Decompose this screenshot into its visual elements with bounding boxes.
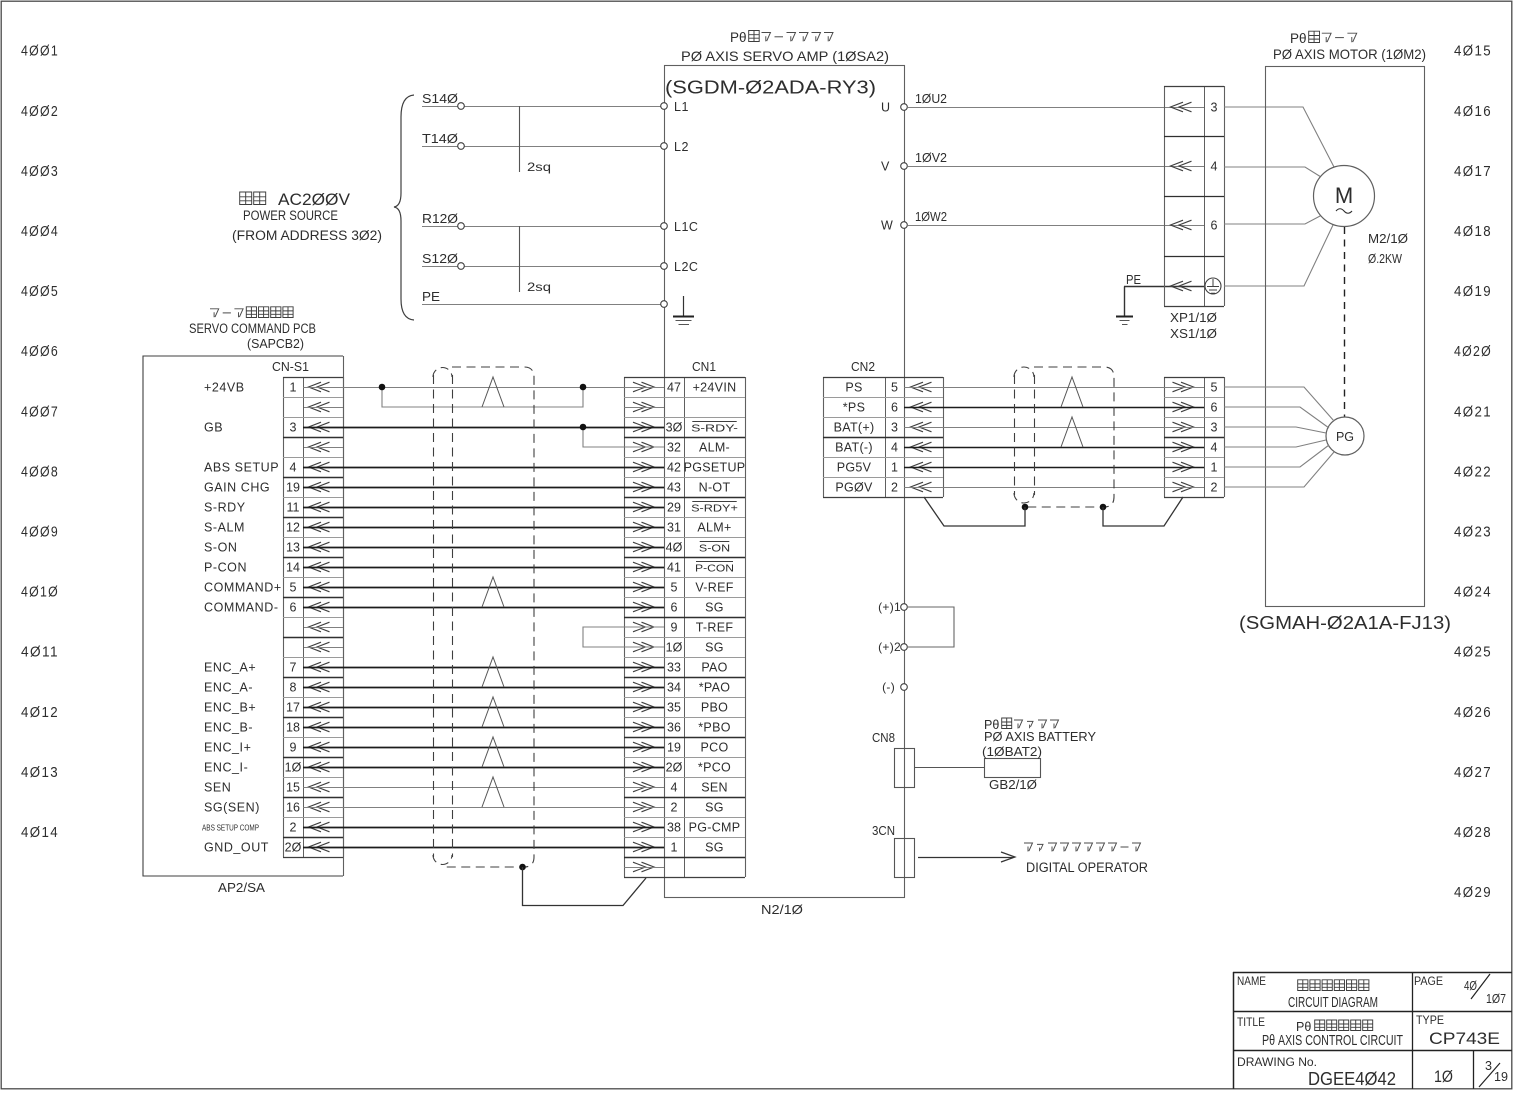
svg-text:29: 29 [667, 500, 681, 514]
wire W connector pin6 to motor [1224, 215, 1322, 224]
wire U connector pin3 to motor [1224, 107, 1334, 167]
wire GND_OUT CN-S1 to CN1 [303, 847, 664, 849]
svg-text:9: 9 [671, 620, 678, 634]
svg-text:42: 42 [667, 460, 681, 474]
svg-text:PAO: PAO [701, 660, 727, 674]
svg-text:2Ø: 2Ø [666, 760, 683, 774]
svg-text:*PCO: *PCO [698, 760, 731, 774]
svg-text:AC2ØØV: AC2ØØV [278, 191, 350, 209]
wire branch GB to CN1 pin32 ALM- [583, 427, 664, 447]
svg-text:2sq: 2sq [527, 160, 551, 174]
svg-text:U: U [881, 101, 890, 115]
encoder shield dashed outline [1025, 367, 1114, 507]
svg-text:TYPE: TYPE [1416, 1015, 1444, 1027]
connector CN2 strip frame [823, 377, 825, 497]
svg-text:L1C: L1C [674, 220, 698, 234]
svg-text:6: 6 [290, 600, 297, 614]
svg-text:11: 11 [287, 500, 300, 514]
ground symbol motor PE [1116, 316, 1133, 318]
svg-text:4Ø11: 4Ø11 [21, 645, 59, 661]
svg-text:SG: SG [705, 800, 724, 814]
svg-text:Pθ: Pθ [1290, 31, 1307, 46]
svg-text:5: 5 [1211, 380, 1218, 394]
svg-text:1: 1 [891, 460, 898, 474]
svg-text:CP743E: CP743E [1429, 1029, 1500, 1048]
wire encoder connector row y447 to PG [1224, 440, 1326, 447]
shield dots encoder [1022, 504, 1029, 511]
connector CN-S1 row pin shield [309, 442, 330, 452]
svg-text:P-CON: P-CON [695, 564, 734, 575]
svg-text:NAME: NAME [1237, 976, 1266, 988]
svg-text:DGEE4Ø42: DGEE4Ø42 [1308, 1069, 1396, 1089]
svg-text:3: 3 [1211, 420, 1218, 434]
shaft coupling dashed M to PG [1344, 227, 1346, 417]
svg-text:4ØØ7: 4ØØ7 [21, 404, 59, 420]
svg-text:(SGMAH-Ø2A1A-FJ13): (SGMAH-Ø2A1A-FJ13) [1239, 613, 1451, 633]
wire ABS SETUP CN-S1 to CN1 [303, 467, 664, 469]
svg-text:PØ AXIS MOTOR (1ØM2): PØ AXIS MOTOR (1ØM2) [1273, 46, 1426, 62]
svg-text:SERVO COMMAND PCB: SERVO COMMAND PCB [189, 321, 316, 336]
wire shield drain CN2 side [924, 497, 1025, 526]
svg-text:4Ø21: 4Ø21 [1454, 404, 1492, 420]
label power source AC200V (Japanese dengen) [240, 192, 252, 205]
svg-text:4Ø16: 4Ø16 [1454, 104, 1492, 120]
svg-text:12: 12 [286, 520, 300, 534]
svg-text:(+)2: (+)2 [878, 640, 901, 654]
svg-text:6: 6 [891, 400, 898, 414]
svg-text:TITLE: TITLE [1237, 1017, 1265, 1029]
svg-text:4Ø1Ø: 4Ø1Ø [21, 585, 59, 601]
svg-text:2: 2 [891, 480, 898, 494]
svg-text:17: 17 [286, 700, 300, 714]
svg-text:ALM+: ALM+ [697, 520, 731, 534]
wire ABS SETUP COMP CN-S1 to CN1 [303, 827, 664, 829]
svg-text:POWER SOURCE: POWER SOURCE [243, 208, 338, 223]
brace for power source group [394, 95, 414, 320]
svg-text:ENC_I-: ENC_I- [204, 760, 248, 774]
svg-text:N-OT: N-OT [699, 480, 731, 494]
wire PE connector to motor [1224, 225, 1333, 286]
connector CN1 row pin shield [633, 862, 654, 872]
wire shield drain to CN1 shell [523, 867, 647, 906]
svg-text:S14Ø: S14Ø [422, 92, 458, 106]
wire stub CN1 bottom shield row [624, 867, 664, 869]
wire stub CN1 shield row2 [624, 407, 664, 409]
svg-text:(+)1: (+)1 [878, 600, 901, 614]
svg-text:18: 18 [286, 720, 300, 734]
svg-text:PØ AXIS BATTERY: PØ AXIS BATTERY [984, 729, 1096, 744]
cable shield dashed hairpin left [433, 368, 452, 378]
connector CN-S1 strip frame [283, 377, 285, 857]
twisted pair symbols command cable [482, 577, 504, 607]
svg-text:4Ø12: 4Ø12 [21, 705, 59, 721]
svg-text:2: 2 [1211, 480, 1218, 494]
svg-text:CN2: CN2 [851, 359, 875, 374]
svg-text:SG: SG [705, 640, 724, 654]
wire V connector pin4 to motor [1224, 167, 1321, 177]
wire stub CN-S1 row14 [304, 647, 343, 649]
svg-text:1: 1 [671, 840, 678, 854]
svg-text:4ØØ8: 4ØØ8 [21, 464, 59, 480]
svg-text:PAGE: PAGE [1414, 976, 1443, 988]
svg-text:47: 47 [667, 380, 681, 394]
terminal circle on amp edge [661, 223, 668, 230]
wire +24VB return loop lower conductor [382, 387, 583, 407]
svg-text:+24VB: +24VB [204, 380, 245, 394]
wire S-ALM CN-S1 to CN1 [303, 527, 664, 529]
svg-text:19: 19 [1494, 1069, 1508, 1084]
wire W phase output 1ØW2 to motor connector [908, 225, 1204, 227]
svg-text:4: 4 [671, 780, 678, 794]
svg-text:S-RDY: S-RDY [204, 500, 246, 514]
svg-text:14: 14 [286, 560, 300, 574]
svg-text:4Ø2Ø: 4Ø2Ø [1454, 344, 1492, 360]
svg-text:PGSETUP: PGSETUP [684, 460, 746, 474]
terminal circle S14Ø [458, 103, 465, 110]
wire ENC_B- CN-S1 to CN1 [303, 727, 664, 729]
svg-text:GAIN CHG: GAIN CHG [204, 480, 270, 494]
svg-text:ABS SETUP COMP: ABS SETUP COMP [202, 823, 259, 833]
wire SEN CN-S1 to CN1 [303, 787, 664, 789]
wire GAIN CHG CN-S1 to CN1 [303, 487, 664, 489]
svg-text:4Ø: 4Ø [1464, 978, 1477, 993]
svg-text:*PS: *PS [843, 400, 865, 414]
svg-text:7: 7 [290, 660, 297, 674]
wire encoder connector row y407 to PG [1224, 407, 1329, 428]
wire GB pin3 to CN1 pin30 [303, 427, 664, 429]
svg-text:2: 2 [290, 820, 297, 834]
svg-text:GB2/1Ø: GB2/1Ø [989, 777, 1037, 792]
wire ENC_B+ CN-S1 to CN1 [303, 707, 664, 709]
motor P0 axis motor 10M2 box [1266, 67, 1425, 607]
svg-text:5: 5 [290, 580, 297, 594]
cable shield dashed outline [443, 367, 534, 867]
svg-text:15: 15 [286, 780, 300, 794]
svg-text:Ø.2KW: Ø.2KW [1368, 252, 1402, 266]
connector CN-S1 row pin shield [309, 622, 330, 632]
wire P-CON CN-S1 to CN1 [303, 567, 664, 569]
svg-text:ALM-: ALM- [699, 440, 730, 454]
svg-text:4Ø24: 4Ø24 [1454, 585, 1492, 601]
svg-text:35: 35 [667, 700, 681, 714]
svg-text:38: 38 [667, 820, 681, 834]
svg-text:AP2/SA: AP2/SA [218, 880, 265, 895]
wire S12Ø power input to servo amp [422, 266, 664, 268]
svg-text:3: 3 [290, 420, 297, 434]
svg-text:DIGITAL OPERATOR: DIGITAL OPERATOR [1026, 860, 1148, 875]
svg-text:1ØW2: 1ØW2 [915, 210, 947, 224]
svg-text:43: 43 [667, 480, 681, 494]
twisted pair symbol PS pair [1061, 377, 1083, 407]
svg-text:2Ø: 2Ø [285, 840, 302, 854]
svg-text:3: 3 [1211, 100, 1218, 114]
svg-text:CIRCUIT DIAGRAM: CIRCUIT DIAGRAM [1288, 995, 1378, 1011]
svg-text:4ØØ2: 4ØØ2 [21, 104, 59, 120]
connector CN-S1 row pin shield [309, 642, 330, 652]
svg-text:34: 34 [667, 680, 681, 694]
terminal circle on amp edge [661, 263, 668, 270]
svg-text:4: 4 [1211, 440, 1218, 454]
wire BAT(+) CN2 to encoder connector [904, 427, 1204, 429]
svg-text:1Ø: 1Ø [285, 760, 302, 774]
wire PS CN2 to encoder connector [904, 387, 1204, 389]
svg-text:3: 3 [1485, 1058, 1492, 1073]
svg-text:L1: L1 [674, 100, 689, 114]
svg-text:CN8: CN8 [872, 731, 895, 745]
svg-text:2sq: 2sq [527, 280, 551, 294]
encoder PG circle [1326, 417, 1364, 455]
svg-text:13: 13 [286, 540, 300, 554]
connector XP1/XS1 power frame [1164, 86, 1166, 306]
svg-text:1ØU2: 1ØU2 [915, 92, 947, 106]
svg-text:4Ø25: 4Ø25 [1454, 645, 1492, 661]
svg-text:SG: SG [705, 840, 724, 854]
svg-text:16: 16 [286, 800, 300, 814]
svg-text:CN1: CN1 [692, 359, 716, 374]
terminal circle on amp edge [661, 301, 668, 308]
svg-text:SEN: SEN [204, 780, 231, 794]
svg-text:4Ø29: 4Ø29 [1454, 885, 1492, 901]
svg-text:4Ø22: 4Ø22 [1454, 464, 1492, 480]
svg-text:3: 3 [891, 420, 898, 434]
svg-text:*PAO: *PAO [699, 680, 731, 694]
svg-text:2: 2 [671, 800, 678, 814]
svg-text:5: 5 [671, 580, 678, 594]
junction dots +24VB pair [379, 384, 386, 391]
svg-text:3Ø: 3Ø [666, 420, 683, 434]
op-amp block P0 axis servo amp 10SA2 box [665, 66, 905, 898]
battery 10BAT2 box [985, 759, 1041, 778]
svg-text:T14Ø: T14Ø [422, 132, 458, 146]
wire encoder connector row y427 to PG [1224, 427, 1326, 433]
svg-text:V: V [881, 160, 890, 174]
arrow 3CN to digital operator [918, 857, 1013, 859]
wire ENC_A+ CN-S1 to CN1 [303, 667, 664, 669]
svg-text:19: 19 [286, 480, 300, 494]
svg-text:4ØØ4: 4ØØ4 [21, 224, 59, 240]
wire *PS CN2 to encoder connector [904, 407, 1204, 409]
svg-text:1: 1 [290, 380, 297, 394]
svg-text:S12Ø: S12Ø [422, 252, 458, 266]
label circuit diagram (Japanese) [1298, 980, 1308, 991]
cable size marker 2sq lower [519, 226, 521, 292]
wire COMMAND- CN-S1 to CN1 [303, 607, 664, 609]
svg-text:6: 6 [671, 600, 678, 614]
svg-text:4Ø: 4Ø [666, 540, 683, 554]
svg-text:(1ØBAT2): (1ØBAT2) [982, 744, 1042, 759]
title block frame [1233, 972, 1512, 974]
svg-text:PE: PE [1126, 273, 1141, 287]
svg-text:XP1/1Ø: XP1/1Ø [1170, 311, 1217, 325]
svg-text:1: 1 [1211, 460, 1218, 474]
wire encoder connector row y487 to PG [1224, 452, 1334, 487]
svg-text:4Ø13: 4Ø13 [21, 765, 59, 781]
svg-text:PS: PS [845, 380, 862, 394]
svg-text:V-REF: V-REF [695, 580, 733, 594]
wire PG0V CN2 to encoder connector [904, 487, 1204, 489]
svg-text:41: 41 [667, 560, 681, 574]
svg-text:N2/1Ø: N2/1Ø [761, 903, 803, 917]
svg-text:(-): (-) [882, 680, 895, 694]
svg-text:M: M [1335, 183, 1353, 208]
svg-text:4Ø14: 4Ø14 [21, 825, 59, 841]
svg-text:DRAWING No.: DRAWING No. [1237, 1057, 1317, 1069]
svg-text:Pθ: Pθ [1296, 1020, 1311, 1034]
svg-text:P-CON: P-CON [204, 560, 247, 574]
wire CN8 to battery [914, 767, 984, 769]
svg-text:ENC_A-: ENC_A- [204, 680, 253, 694]
svg-text:GB: GB [204, 420, 223, 434]
svg-text:BAT(+): BAT(+) [834, 420, 875, 434]
terminal circle T14Ø [458, 143, 465, 150]
wire T-REF/SG loop to CN1 pins 9,10 [583, 627, 664, 647]
svg-text:5: 5 [891, 380, 898, 394]
wire stub CN-S1 shield row2 [304, 407, 343, 409]
svg-text:4Ø28: 4Ø28 [1454, 825, 1492, 841]
svg-text:PG5V: PG5V [837, 460, 872, 474]
wire stub CN-S1 row13 [304, 627, 343, 629]
wire shield drain encoder connector side [1103, 497, 1183, 526]
label servo command PCB (Japanese) [210, 309, 219, 318]
wire ENC_I+ CN-S1 to CN1 [303, 747, 664, 749]
wire encoder connector row y467 to PG [1224, 445, 1329, 467]
svg-text:ENC_B-: ENC_B- [204, 720, 253, 734]
svg-text:SEN: SEN [701, 780, 728, 794]
wire U phase output 1ØU2 to motor connector [908, 107, 1204, 109]
svg-text:6: 6 [1211, 218, 1218, 232]
svg-text:T-REF: T-REF [696, 620, 734, 634]
svg-text:+24VIN: +24VIN [693, 380, 737, 394]
svg-text:PCO: PCO [701, 740, 729, 754]
label digital operator (Japanese) [1024, 843, 1033, 852]
svg-text:R12Ø: R12Ø [422, 212, 458, 226]
svg-text:4Ø23: 4Ø23 [1454, 525, 1492, 541]
svg-text:31: 31 [667, 520, 681, 534]
svg-text:XS1/1Ø: XS1/1Ø [1170, 327, 1217, 341]
svg-text:SG: SG [705, 600, 724, 614]
svg-text:9: 9 [290, 740, 297, 754]
svg-text:1Ø7: 1Ø7 [1486, 991, 1506, 1006]
wire PG5V CN2 to encoder connector [904, 467, 1204, 469]
wire SG(SEN) CN-S1 to CN1 [303, 807, 664, 809]
terminal circle on amp edge [661, 143, 668, 150]
svg-text:1ØV2: 1ØV2 [915, 151, 947, 165]
svg-text:4ØØ1: 4ØØ1 [21, 44, 59, 60]
wire S14Ø power input to servo amp [422, 106, 664, 108]
shield junction dot [519, 864, 526, 871]
svg-text:COMMAND+: COMMAND+ [204, 580, 282, 594]
wire S-ON CN-S1 to CN1 [303, 547, 664, 549]
servo command PCB AP2/SA outline [143, 356, 343, 876]
wire encoder connector row y387 to PG [1224, 387, 1334, 421]
svg-text:4ØØ3: 4ØØ3 [21, 164, 59, 180]
svg-text:S-ON: S-ON [699, 544, 730, 555]
terminal circle R12Ø [458, 223, 465, 230]
svg-text:4: 4 [290, 460, 297, 474]
svg-text:COMMAND-: COMMAND- [204, 600, 279, 614]
encoder shield dashed hairpin [1014, 367, 1034, 377]
svg-text:PG: PG [1336, 430, 1354, 444]
twisted pair symbol BAT pair [1061, 417, 1083, 447]
svg-text:(SGDM-Ø2ADA-RY3): (SGDM-Ø2ADA-RY3) [665, 78, 876, 98]
cable size marker 2sq upper [519, 106, 521, 172]
wire T14Ø power input to servo amp [422, 146, 664, 148]
svg-text:1Ø: 1Ø [666, 640, 683, 654]
svg-text:Pθ: Pθ [730, 30, 747, 45]
motor M circle [1314, 166, 1375, 227]
wire BAT(-) CN2 to encoder connector [904, 447, 1204, 449]
svg-text:M2/1Ø: M2/1Ø [1368, 232, 1408, 246]
twisted pair symbol +24VB [482, 377, 504, 407]
wire S-RDY CN-S1 to CN1 [303, 507, 664, 509]
svg-text:ABS SETUP: ABS SETUP [204, 460, 279, 474]
svg-text:(FROM ADDRESS 3Ø2): (FROM ADDRESS 3Ø2) [232, 228, 382, 243]
svg-text:4Ø19: 4Ø19 [1454, 284, 1492, 300]
svg-text:3CN: 3CN [872, 824, 895, 838]
svg-text:ENC_I+: ENC_I+ [204, 740, 251, 754]
svg-text:GND_OUT: GND_OUT [204, 840, 269, 854]
wire +24VB pin1 to CN1 pin47 [303, 387, 664, 389]
svg-text:4Ø15: 4Ø15 [1454, 44, 1492, 60]
terminal circle S12Ø [458, 263, 465, 270]
wire ENC_A- CN-S1 to CN1 [303, 687, 664, 689]
svg-text:4Ø18: 4Ø18 [1454, 224, 1492, 240]
svg-text:4Ø17: 4Ø17 [1454, 164, 1492, 180]
svg-text:4: 4 [891, 440, 898, 454]
svg-text:L2: L2 [674, 140, 689, 154]
wire jumper (+)1 to (+)2 [908, 607, 954, 647]
svg-text:4ØØ6: 4ØØ6 [21, 344, 59, 360]
connector CN1 row pin shield [633, 402, 654, 412]
wire COMMAND+ CN-S1 to CN1 [303, 587, 664, 589]
svg-text:1Ø: 1Ø [1434, 1067, 1453, 1086]
svg-text:PE: PE [422, 290, 440, 304]
svg-text:*PBO: *PBO [698, 720, 730, 734]
svg-text:L2C: L2C [674, 260, 698, 274]
svg-text:S-ALM: S-ALM [204, 520, 245, 534]
svg-text:4Ø27: 4Ø27 [1454, 765, 1492, 781]
wire R12Ø power input to servo amp [422, 226, 664, 228]
ground bar heavy [673, 316, 694, 318]
svg-text:S-RDY+: S-RDY+ [691, 504, 738, 515]
svg-text:6: 6 [1211, 400, 1218, 414]
svg-text:ENC_B+: ENC_B+ [204, 700, 256, 714]
svg-text:32: 32 [667, 440, 681, 454]
connector CN-S1 row pin shield [309, 402, 330, 412]
svg-text:PGØV: PGØV [835, 480, 873, 494]
svg-text:4ØØ9: 4ØØ9 [21, 525, 59, 541]
wire ENC_I- CN-S1 to CN1 [303, 767, 664, 769]
svg-text:S-ON: S-ON [204, 540, 237, 554]
wire V phase output 1ØV2 to motor connector [908, 166, 1204, 168]
svg-text:SG(SEN): SG(SEN) [204, 800, 260, 814]
ground symbol inside amp below L2C terminal [683, 296, 685, 316]
svg-text:4: 4 [1211, 159, 1218, 173]
svg-text:BAT(-): BAT(-) [835, 440, 873, 454]
connector XP1 PE pin symbol [1171, 281, 1192, 291]
svg-text:4Ø26: 4Ø26 [1454, 705, 1492, 721]
svg-text:36: 36 [667, 720, 681, 734]
svg-text:CN-S1: CN-S1 [272, 359, 309, 374]
svg-text:4ØØ5: 4ØØ5 [21, 284, 59, 300]
svg-text:PØ AXIS SERVO AMP (1ØSA2): PØ AXIS SERVO AMP (1ØSA2) [681, 48, 889, 64]
connector XS1 encoder frame [1164, 377, 1166, 497]
svg-text:ENC_A+: ENC_A+ [204, 660, 256, 674]
connector CN1 strip frame [624, 377, 626, 877]
svg-text:W: W [881, 219, 893, 233]
svg-text:PBO: PBO [701, 700, 728, 714]
svg-text:(SAPCB2): (SAPCB2) [247, 336, 304, 351]
